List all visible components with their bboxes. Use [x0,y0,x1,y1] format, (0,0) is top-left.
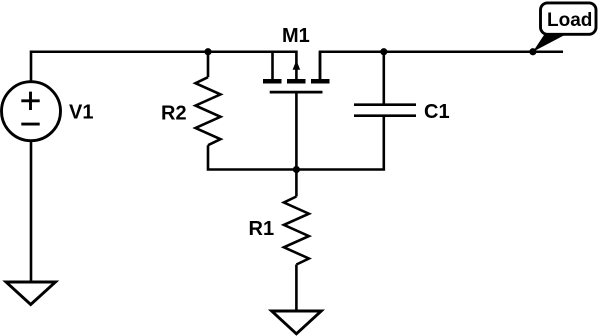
ground (below R1) [272,311,322,334]
source vertical stem [271,52,274,79]
node: load tap dot on top rail [529,48,536,55]
resistor R1 [284,197,309,265]
channel bars (source, bulk, drain) [263,79,330,84]
callout tail pointing at load node [533,34,568,52]
node: gate / R1 junction dot [293,166,300,173]
svg-text:M1: M1 [282,25,310,47]
wire: C1 top lead [382,52,385,105]
svg-text:Load: Load [547,10,592,31]
drain vertical stem [319,52,322,79]
svg-text:R1: R1 [249,218,275,240]
gate plate [270,91,323,94]
wire: R2 top lead [207,52,210,77]
wire: R1 top lead [295,170,298,197]
svg-text:V1: V1 [69,102,93,124]
wire: V1 bottom lead to ground [30,141,33,282]
capacitor C1 [354,105,416,116]
bulk arrow (points up) [293,60,301,70]
node: top rail / C1 junction dot [380,48,387,55]
callout balloon "Load" [541,3,597,34]
ground (below V1) [6,282,56,305]
wire: top rail from V1 top, right to M1 source/bulk, down to bulk bar [31,52,296,82]
node: top rail / R2 junction dot [204,48,211,55]
wire: R1 bottom lead to ground [295,265,298,312]
transistor M1 (MOSFET, gate down) [263,52,330,92]
resistor R2 [196,77,221,145]
voltage source V1 [2,82,61,141]
wire: M1 drain up and top rail right to load end [320,52,563,79]
wire: R2 bottom lead, bottom rail to C1, up C1 bottom lead [208,116,384,170]
svg-text:C1: C1 [424,101,450,123]
svg-text:R2: R2 [161,102,187,124]
wire: M1 gate lead down to R1/R2 node [295,92,298,169]
